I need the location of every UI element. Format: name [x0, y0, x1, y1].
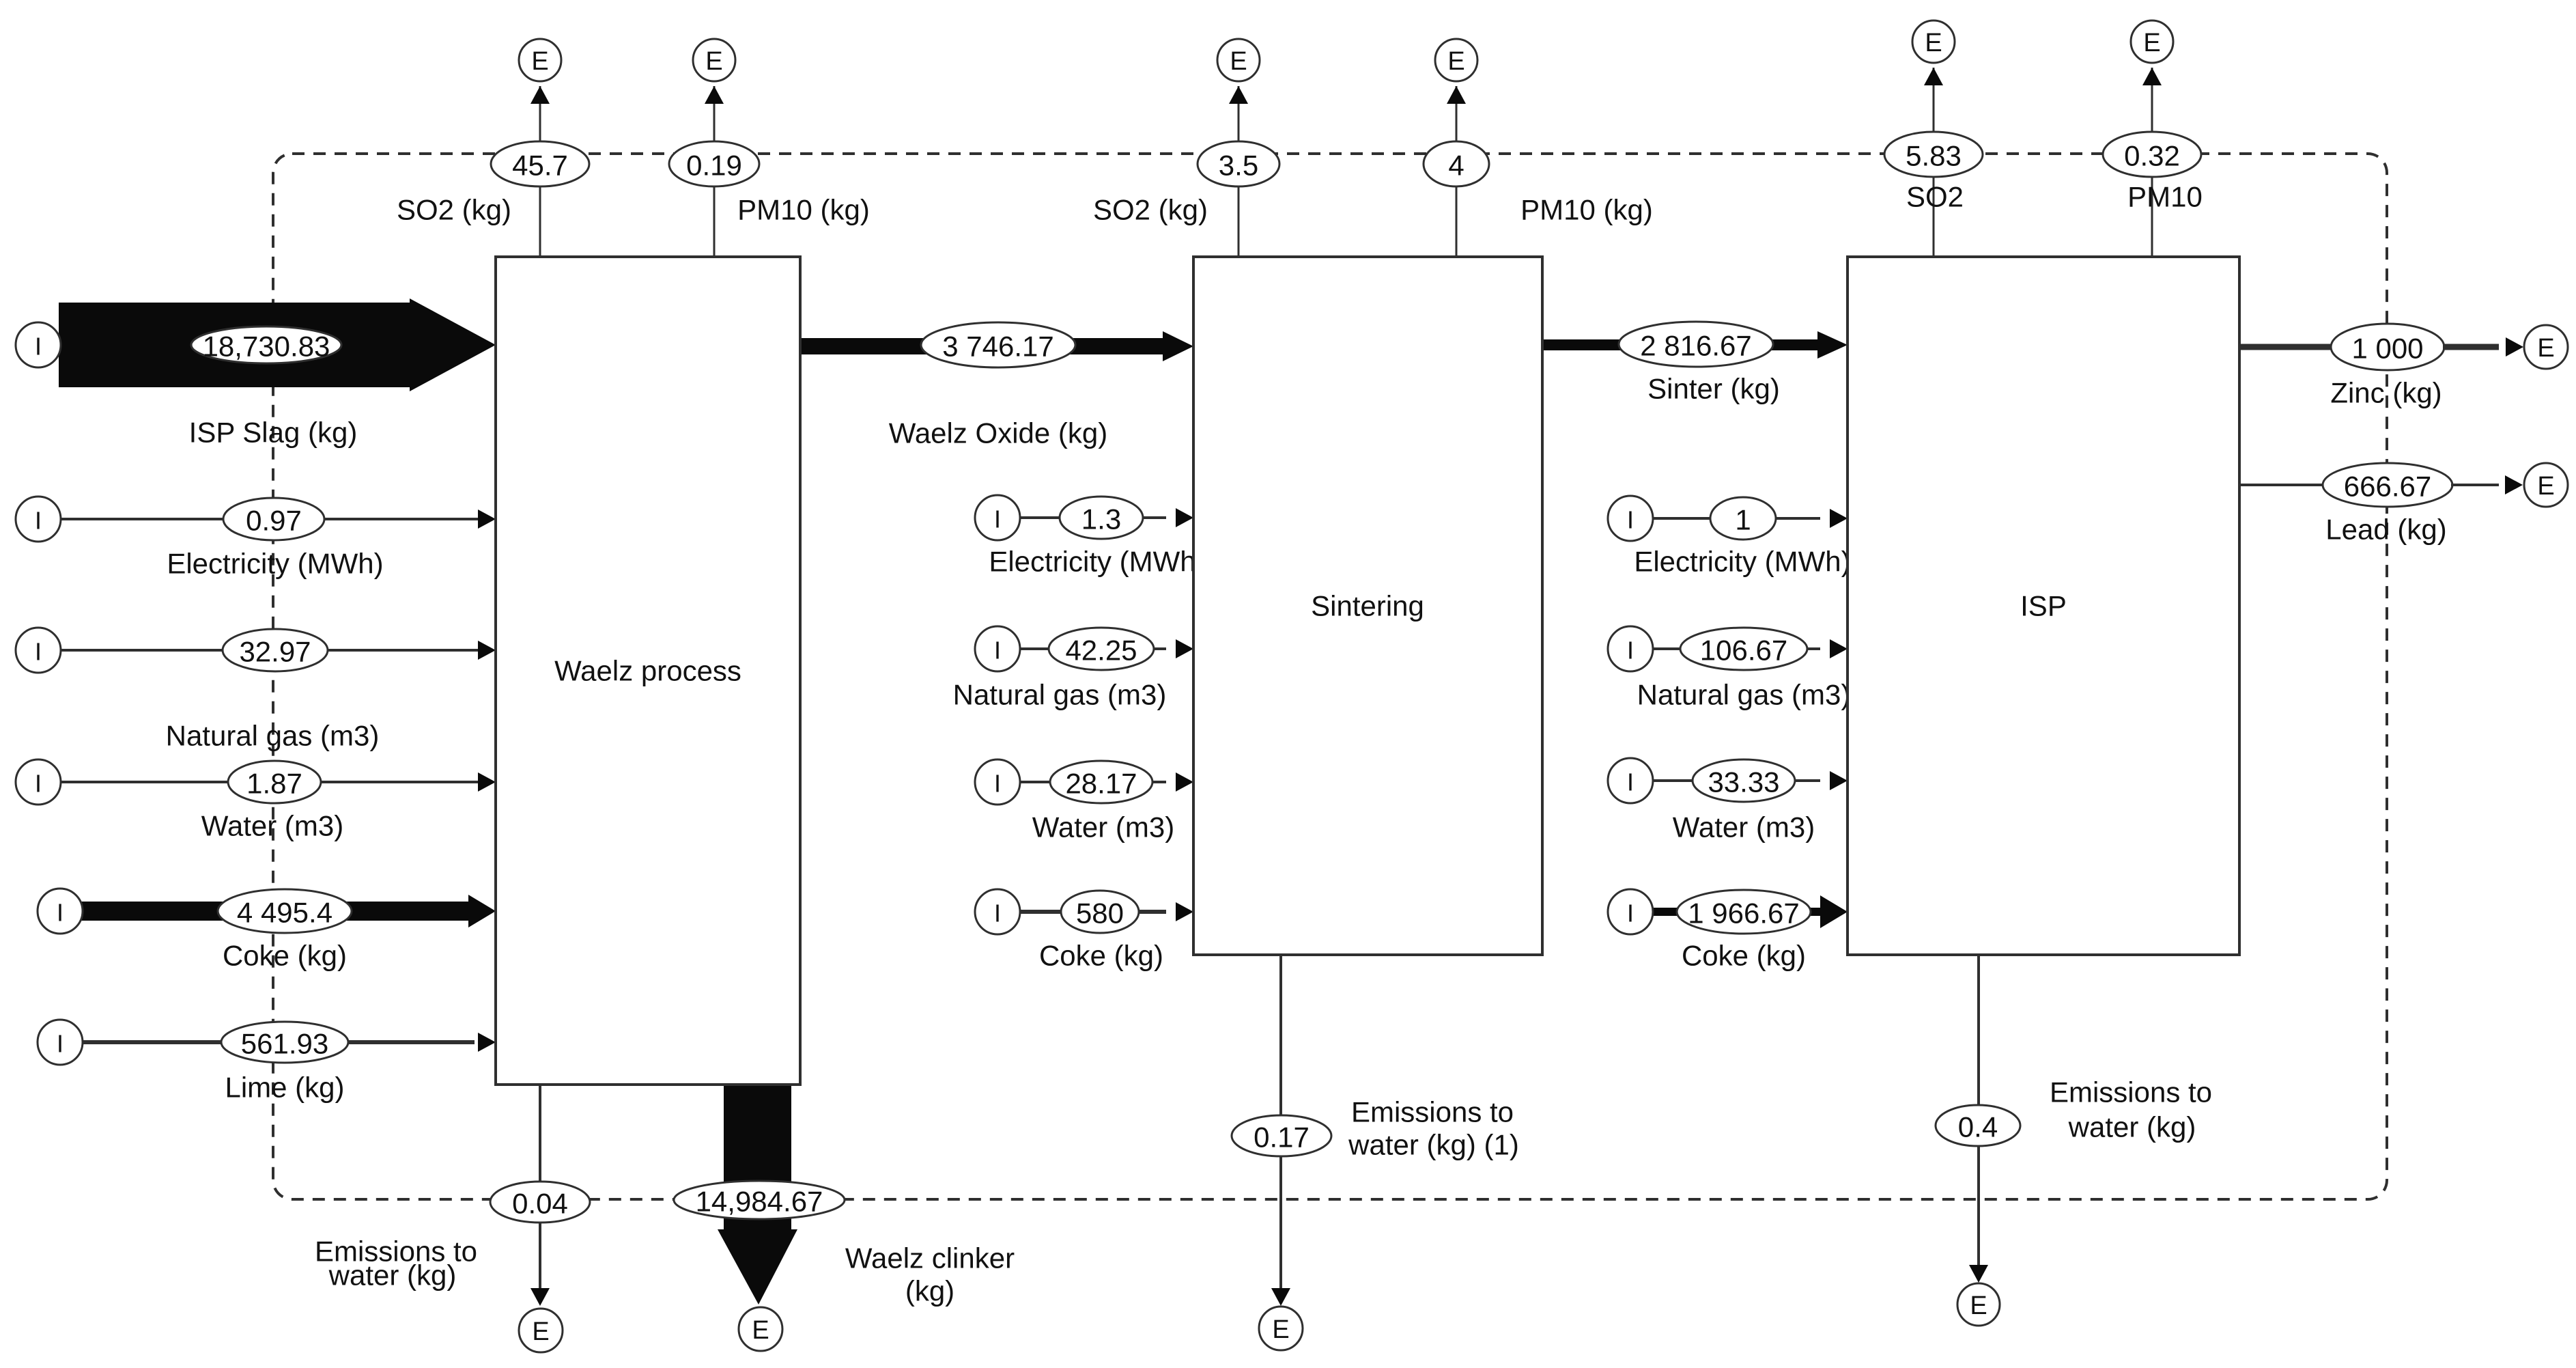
svg-text:1 000: 1 000: [2351, 333, 2423, 365]
svg-text:I: I: [35, 333, 42, 361]
svg-text:4: 4: [1448, 150, 1464, 182]
svg-text:I: I: [1627, 899, 1634, 927]
svg-text:14,984.67: 14,984.67: [696, 1186, 823, 1218]
svg-text:ISP Slag (kg): ISP Slag (kg): [189, 417, 358, 449]
svg-text:Electricity (MWh): Electricity (MWh): [1634, 546, 1850, 578]
svg-text:Zinc (kg): Zinc (kg): [2330, 377, 2441, 409]
svg-text:Coke (kg): Coke (kg): [223, 940, 347, 972]
svg-text:Electricity (MWh): Electricity (MWh): [989, 546, 1205, 578]
svg-text:Natural gas (m3): Natural gas (m3): [1637, 679, 1851, 711]
svg-text:E: E: [752, 1316, 769, 1345]
svg-text:E: E: [1925, 29, 1942, 57]
svg-text:666.67: 666.67: [2344, 471, 2431, 503]
svg-text:(kg): (kg): [905, 1275, 954, 1307]
svg-text:4 495.4: 4 495.4: [237, 897, 332, 929]
svg-text:0.32: 0.32: [2124, 140, 2180, 172]
svg-text:PM10: PM10: [2127, 181, 2203, 213]
svg-text:water (kg): water (kg): [2068, 1111, 2196, 1143]
svg-text:E: E: [2537, 334, 2554, 363]
svg-text:I: I: [994, 899, 1001, 927]
svg-text:32.97: 32.97: [239, 636, 311, 668]
svg-text:580: 580: [1076, 897, 1124, 930]
svg-text:water (kg) (1): water (kg) (1): [1348, 1129, 1519, 1161]
svg-text:106.67: 106.67: [1700, 634, 1787, 667]
svg-text:I: I: [1627, 768, 1634, 796]
svg-text:I: I: [35, 507, 42, 535]
svg-text:I: I: [57, 1030, 63, 1058]
svg-text:3.5: 3.5: [1219, 150, 1258, 182]
svg-text:Sintering: Sintering: [1311, 590, 1424, 622]
svg-text:Natural gas (m3): Natural gas (m3): [953, 679, 1167, 711]
svg-text:Coke (kg): Coke (kg): [1682, 940, 1806, 972]
svg-text:0.4: 0.4: [1958, 1111, 1998, 1143]
svg-text:28.17: 28.17: [1065, 768, 1137, 800]
svg-text:1: 1: [1735, 504, 1751, 536]
svg-text:0.97: 0.97: [246, 505, 302, 537]
svg-text:E: E: [531, 47, 548, 76]
svg-text:561.93: 561.93: [241, 1028, 328, 1060]
svg-text:E: E: [705, 47, 722, 76]
svg-text:0.17: 0.17: [1254, 1121, 1310, 1154]
svg-text:Emissions to: Emissions to: [1351, 1096, 1514, 1128]
svg-text:3 746.17: 3 746.17: [942, 331, 1054, 363]
svg-text:SO2 (kg): SO2 (kg): [397, 194, 511, 226]
svg-text:1.3: 1.3: [1081, 503, 1121, 535]
svg-text:Water (m3): Water (m3): [1032, 811, 1174, 843]
svg-text:0.19: 0.19: [686, 150, 742, 182]
svg-text:Waelz clinker: Waelz clinker: [845, 1242, 1015, 1274]
svg-text:I: I: [994, 637, 1001, 665]
svg-text:Water (m3): Water (m3): [1673, 811, 1815, 843]
svg-text:Lime (kg): Lime (kg): [225, 1072, 344, 1104]
svg-text:E: E: [1272, 1315, 1289, 1344]
svg-text:I: I: [57, 899, 63, 927]
svg-text:E: E: [1447, 47, 1464, 76]
svg-text:Waelz process: Waelz process: [554, 655, 741, 687]
svg-text:I: I: [994, 505, 1001, 533]
svg-text:ISP: ISP: [2020, 590, 2067, 622]
svg-text:water (kg): water (kg): [328, 1259, 457, 1292]
svg-text:E: E: [532, 1317, 549, 1346]
svg-text:Water (m3): Water (m3): [201, 810, 343, 842]
svg-text:I: I: [35, 770, 42, 798]
svg-text:PM10 (kg): PM10 (kg): [737, 194, 870, 226]
svg-text:Lead (kg): Lead (kg): [2325, 514, 2446, 546]
svg-text:SO2 (kg): SO2 (kg): [1093, 194, 1208, 226]
svg-text:0.04: 0.04: [512, 1188, 568, 1220]
svg-text:42.25: 42.25: [1065, 634, 1137, 667]
svg-text:2 816.67: 2 816.67: [1640, 330, 1752, 362]
svg-text:PM10 (kg): PM10 (kg): [1520, 194, 1653, 226]
svg-text:5.83: 5.83: [1906, 140, 1962, 172]
svg-text:Electricity (MWh): Electricity (MWh): [167, 548, 383, 580]
svg-text:Natural gas (m3): Natural gas (m3): [166, 720, 380, 752]
svg-text:I: I: [994, 770, 1001, 798]
svg-text:45.7: 45.7: [512, 150, 568, 182]
svg-text:18,730.83: 18,730.83: [203, 331, 330, 363]
svg-text:SO2: SO2: [1906, 181, 1964, 213]
svg-text:1.87: 1.87: [246, 768, 302, 800]
svg-text:Sinter (kg): Sinter (kg): [1647, 373, 1780, 405]
svg-text:1 966.67: 1 966.67: [1688, 897, 1800, 930]
svg-text:I: I: [1627, 506, 1634, 534]
svg-text:I: I: [1627, 637, 1634, 665]
svg-text:E: E: [2537, 472, 2554, 501]
svg-text:I: I: [35, 638, 42, 666]
svg-text:Waelz Oxide (kg): Waelz Oxide (kg): [889, 417, 1108, 449]
svg-text:E: E: [2143, 29, 2160, 57]
svg-text:E: E: [1230, 47, 1247, 76]
svg-text:Coke (kg): Coke (kg): [1039, 940, 1163, 972]
svg-text:E: E: [1970, 1292, 1987, 1320]
svg-text:33.33: 33.33: [1708, 766, 1779, 798]
svg-text:Emissions to: Emissions to: [2050, 1076, 2212, 1108]
